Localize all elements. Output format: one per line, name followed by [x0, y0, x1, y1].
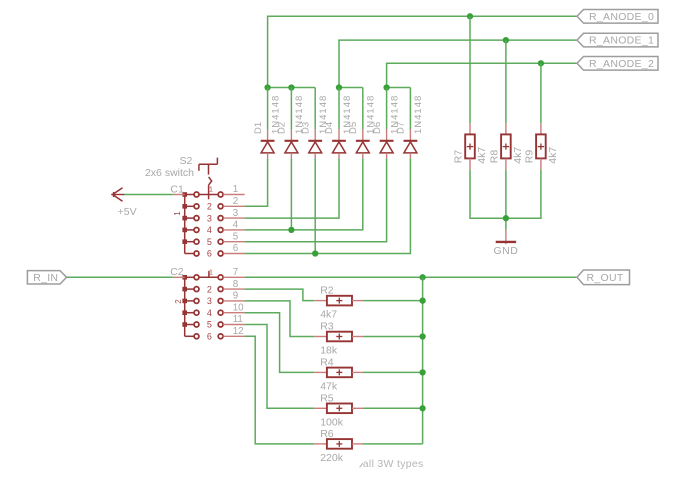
svg-text:1: 1 [209, 187, 213, 194]
svg-text:4: 4 [233, 220, 239, 231]
svg-text:D6: D6 [372, 122, 383, 134]
svg-text:5: 5 [233, 231, 239, 242]
wire C2 pin 8 to R2 [245, 289, 315, 301]
wire anode bar to D5 [362, 88, 364, 130]
diode D2 1N4148 [285, 129, 299, 158]
switch contact tick on C2 row 7 [208, 271, 210, 277]
svg-text:D4: D4 [324, 122, 335, 134]
pin 7 stub wire of C2 [173, 276, 185, 278]
svg-text:+5V: +5V [118, 206, 137, 218]
svg-text:R8: R8 [488, 150, 500, 164]
junction collector at R5 [419, 405, 425, 411]
svg-text:R7: R7 [452, 150, 464, 164]
resistor R8 4k7 vertical [501, 123, 511, 169]
svg-text:C2: C2 [170, 266, 184, 278]
svg-text:D1: D1 [253, 122, 264, 134]
wire D1 to C1 pin 2 [245, 158, 268, 206]
wire R3 to collector [363, 336, 423, 338]
connector C1 body [182, 192, 223, 256]
svg-text:1: 1 [233, 184, 238, 195]
svg-text:7: 7 [233, 267, 238, 278]
svg-text:2: 2 [233, 196, 238, 207]
svg-text:220k: 220k [320, 452, 344, 464]
wire net R_ANODE_2 [387, 63, 577, 87]
wire R7 bottom to GND rail [470, 170, 506, 219]
svg-text:R6: R6 [320, 428, 334, 440]
svg-text:4k7: 4k7 [512, 147, 524, 164]
resistor R2 4k7 [314, 296, 363, 306]
svg-text:2: 2 [174, 299, 183, 304]
note all 3W types [360, 463, 363, 467]
wire D5 to C1 pin 4 [245, 158, 363, 230]
net flag R_OUT [577, 270, 630, 285]
pin 4 of C1 [223, 229, 244, 231]
svg-text:2: 2 [207, 284, 212, 294]
svg-text:S2: S2 [180, 155, 193, 167]
pin 1 of C1 [223, 194, 244, 196]
pin 1 stub wire of C1 [173, 194, 185, 196]
resistor R7 4k7 vertical [465, 123, 475, 169]
wire D6 to C1 pin 5 [245, 158, 387, 241]
switch actuator S2 [199, 158, 218, 200]
svg-text:100k: 100k [320, 416, 344, 428]
wire R8 column from R_ANODE_1 [505, 40, 507, 123]
svg-text:D7: D7 [396, 122, 407, 134]
junction R_OUT at collector column [419, 274, 425, 280]
diode D7 1N4148 [404, 129, 418, 158]
wire D3 to pin 6 net [314, 158, 316, 253]
diode D1 1N4148 [261, 129, 275, 158]
junction collector at R2 [419, 297, 425, 303]
wire R8 bottom to GND [505, 170, 507, 230]
svg-text:9: 9 [233, 291, 238, 302]
svg-text:10: 10 [233, 302, 244, 313]
wire R_IN to C2 pin 7 [67, 276, 173, 278]
wire net R_ANODE_0 [268, 16, 577, 87]
svg-text:3: 3 [233, 208, 239, 219]
pin 9 of C2 [223, 300, 244, 302]
pin 10 of C2 [223, 312, 244, 314]
junction at GND rail [503, 215, 509, 221]
wire R_OUT net [245, 276, 577, 278]
svg-text:R5: R5 [320, 392, 334, 404]
wire anode bar D1-D3 [268, 87, 316, 89]
wire anode bar D4-D5 [339, 87, 363, 89]
net flag R_ANODE_1 [577, 33, 658, 47]
pin 7 of C2 [223, 276, 244, 278]
wire anode bar to D7 [409, 88, 411, 130]
junction D3 on pin 6 net [312, 250, 318, 256]
svg-text:3: 3 [207, 213, 212, 223]
wire R4 to collector [363, 371, 423, 373]
svg-text:R_ANODE_2: R_ANODE_2 [589, 58, 654, 70]
resistor R3 18k [314, 332, 363, 342]
wire anode bar to D2 [290, 88, 292, 130]
svg-text:4k7: 4k7 [320, 309, 337, 321]
junction at D6 top [383, 84, 389, 90]
junction collector at R3 [419, 333, 425, 339]
diode D5 1N4148 [356, 129, 370, 158]
pin 3 of C1 [223, 217, 244, 219]
wire anode bar to D6 [386, 88, 388, 130]
svg-text:1: 1 [173, 211, 182, 216]
svg-text:12: 12 [233, 326, 244, 337]
junction D2 on pin 4 net [288, 227, 294, 233]
junction on R_ANODE_0 at R7 column [467, 13, 473, 19]
wire C2 pin 12 to R6 [245, 336, 315, 444]
pin 2 of C1 [223, 205, 244, 207]
net flag R_ANODE_2 [577, 57, 658, 71]
svg-text:6: 6 [207, 332, 212, 342]
svg-text:5: 5 [207, 320, 212, 330]
svg-text:11: 11 [233, 314, 243, 325]
wire R7 column from R_ANODE_0 [469, 16, 471, 123]
svg-text:C1: C1 [170, 183, 184, 195]
wire net R_ANODE_1 [339, 40, 577, 87]
net flag R_IN [27, 271, 66, 284]
wire R2 to collector [363, 300, 423, 302]
wire anode bar to D3 [314, 88, 316, 130]
wire D7 to C1 pin 6 [245, 158, 411, 253]
pin 11 of C2 [223, 324, 244, 326]
wire anode bar D6-D7 [387, 87, 411, 89]
svg-text:18k: 18k [320, 345, 338, 357]
svg-text:D5: D5 [348, 122, 359, 134]
svg-text:47k: 47k [320, 380, 338, 392]
wire collector vertical to resistors [422, 277, 424, 444]
wire R5 to collector [363, 407, 423, 409]
svg-text:4: 4 [207, 308, 212, 318]
svg-text:R_ANODE_1: R_ANODE_1 [589, 35, 654, 47]
resistor R5 100k [314, 404, 363, 414]
svg-text:GND: GND [493, 245, 518, 257]
junction on R_ANODE_2 at R9 column [538, 60, 544, 66]
wire anode bar to D4 [338, 88, 340, 130]
svg-text:1N4148: 1N4148 [413, 95, 424, 134]
svg-text:R3: R3 [320, 321, 334, 333]
wire anode bar to D1 [267, 88, 269, 130]
wire R9 bottom to GND rail [506, 170, 541, 219]
ground GND symbol [496, 230, 516, 244]
svg-text:2: 2 [207, 202, 212, 212]
svg-text:4k7: 4k7 [476, 147, 488, 164]
svg-text:R4: R4 [320, 357, 334, 369]
net flag R_ANODE_0 [577, 10, 658, 24]
wire +5V to C1 pin 1 [124, 194, 173, 196]
svg-text:D2: D2 [277, 122, 288, 134]
svg-text:6: 6 [233, 243, 239, 254]
diode D6 1N4148 [380, 129, 394, 158]
svg-text:6: 6 [207, 249, 212, 259]
wire R9 column from R_ANODE_2 [540, 63, 542, 123]
svg-text:R9: R9 [523, 150, 535, 164]
pin 8 of C2 [223, 288, 244, 290]
junction at D1 top [264, 84, 270, 90]
diode D4 1N4148 [332, 129, 346, 158]
svg-text:R_IN: R_IN [33, 272, 58, 284]
junction at D2 top [288, 84, 294, 90]
svg-text:5: 5 [207, 237, 212, 247]
wire C2 pin 10 to R4 [245, 313, 315, 373]
svg-text:R_OUT: R_OUT [587, 272, 624, 284]
svg-text:D3: D3 [300, 122, 311, 134]
wire C2 pin 11 to R5 [245, 325, 315, 409]
junction on R_ANODE_1 at R8 column [503, 37, 509, 43]
wire C2 pin 9 to R3 [245, 301, 315, 337]
svg-text:4k7: 4k7 [547, 147, 559, 164]
+5V supply symbol [111, 188, 125, 202]
svg-text:all 3W types: all 3W types [363, 458, 424, 470]
svg-text:R_ANODE_0: R_ANODE_0 [589, 11, 654, 23]
resistor R4 47k [314, 368, 363, 378]
pin 12 of C2 [223, 335, 244, 337]
wire D4 to C1 pin 3 [245, 158, 339, 218]
pin 5 of C1 [223, 241, 244, 243]
wire R6 to collector [363, 443, 423, 445]
svg-text:R2: R2 [320, 285, 334, 297]
resistor R9 4k7 vertical [536, 123, 546, 169]
connector C2 body [182, 275, 223, 339]
pin 6 of C1 [223, 253, 244, 255]
wire D2 to pin 4 net [290, 158, 292, 230]
svg-text:8: 8 [233, 279, 239, 290]
svg-text:4: 4 [207, 225, 212, 235]
svg-text:2x6 switch: 2x6 switch [145, 167, 194, 179]
svg-text:3: 3 [207, 296, 212, 306]
diode D3 1N4148 [308, 129, 322, 158]
resistor R6 220k [314, 439, 363, 449]
junction at D4 top [336, 84, 342, 90]
junction collector at R4 [419, 369, 425, 375]
